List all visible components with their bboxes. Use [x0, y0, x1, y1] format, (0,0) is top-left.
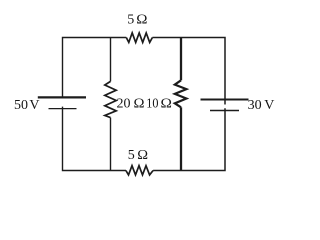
resistor 20 ohm branch upper wire	[110, 38, 112, 82]
svg-text:Ω: Ω	[161, 96, 172, 111]
wire right branch lower + bottom-right corner + bottom rail right segment	[153, 108, 225, 170]
svg-text:Ω: Ω	[137, 148, 148, 163]
svg-text:20: 20	[117, 96, 131, 111]
battery V1 50 V short plate (negative)	[49, 108, 77, 110]
svg-text:30: 30	[248, 98, 262, 113]
svg-text:5: 5	[128, 148, 135, 163]
resistor 5 ohm bottom (zigzag in bottom rail)	[126, 166, 153, 175]
resistor 10 ohm branch upper wire (thick)	[180, 38, 182, 81]
svg-text:V: V	[264, 98, 274, 113]
battery V2 30 V short plate (negative)	[210, 110, 239, 112]
battery V2 30 V long plate (positive)	[201, 99, 249, 101]
resistor 10 ohm zigzag (thick)	[175, 80, 187, 107]
resistor 20 ohm zigzag	[105, 81, 116, 117]
svg-text:50: 50	[14, 98, 28, 113]
wire top rail right segment + top-right corner + right branch upper	[152, 38, 225, 105]
resistor 5 ohm top (zigzag in top rail)	[126, 33, 152, 43]
svg-text:10: 10	[146, 96, 158, 111]
resistor 20 ohm branch lower wire	[110, 118, 112, 171]
svg-text:5: 5	[127, 13, 134, 28]
svg-text:Ω: Ω	[136, 13, 147, 28]
svg-text:V: V	[29, 98, 39, 113]
resistor 10 ohm branch lower wire (thick)	[180, 107, 182, 170]
wire left branch lower + bottom-left corner + bottom rail left segment	[63, 107, 127, 171]
battery V1 50 V long plate (positive)	[38, 96, 86, 98]
svg-text:Ω: Ω	[134, 96, 145, 111]
wire top rail left segment + top-left corner + left branch upper	[63, 38, 127, 99]
